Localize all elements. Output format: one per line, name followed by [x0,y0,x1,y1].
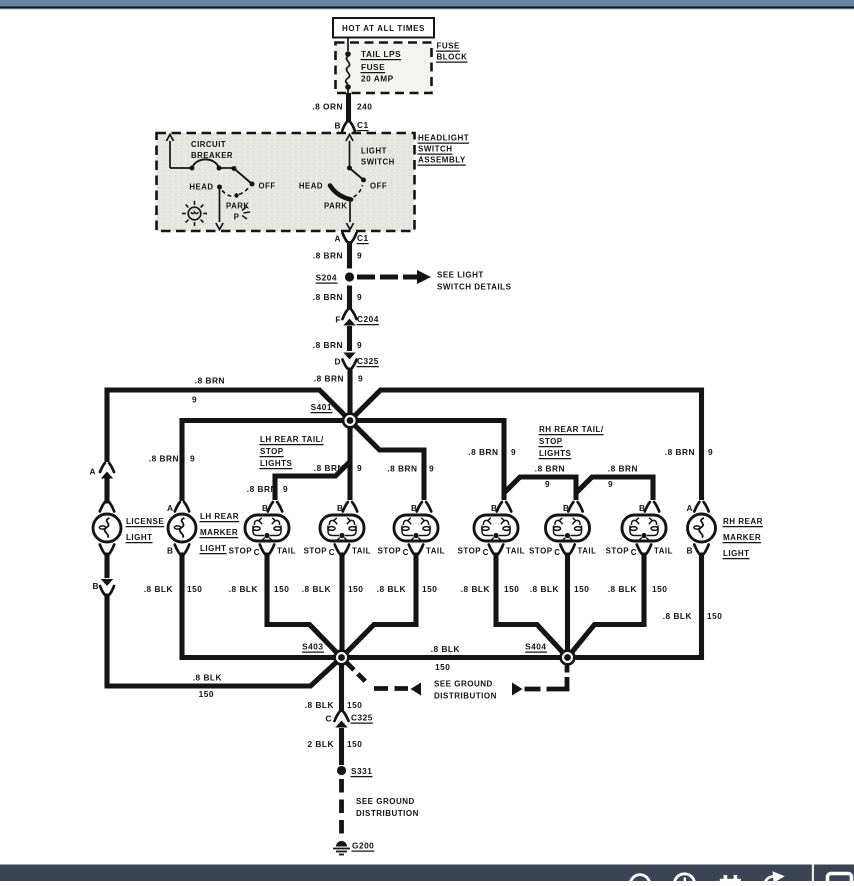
wire S401 to LH stop lights center [347,421,352,501]
svg-text:9: 9 [429,464,434,474]
svg-text:.8 BLK: .8 BLK [663,611,692,621]
svg-text:STOP: STOP [606,547,629,556]
svg-text:F: F [335,315,341,325]
lamp LH stop tail lamp inner [245,515,289,541]
lamp license light [93,514,121,542]
svg-text:B: B [411,503,418,513]
svg-text:.8 BRN: .8 BRN [149,454,179,464]
svg-text:STOP: STOP [458,547,481,556]
svg-text:.8 BLK: .8 BLK [608,584,637,594]
wire park output to connector A [349,199,351,222]
svg-text:A: A [687,503,694,513]
lamp RH rear marker light [688,514,716,542]
svg-text:150: 150 [347,739,362,749]
svg-text:S401: S401 [311,402,332,412]
svg-text:LIGHT: LIGHT [200,544,227,553]
splice S401 [343,414,357,428]
svg-text:A: A [167,503,174,513]
svg-text:B: B [491,503,498,513]
svg-text:9: 9 [357,463,362,473]
svg-text:2 BLK: 2 BLK [308,739,334,749]
headlight switch wafer 1 blade [232,166,237,171]
svg-text:BREAKER: BREAKER [191,151,233,160]
svg-text:.8 ORN: .8 ORN [312,102,343,112]
svg-text:.8 BLK: .8 BLK [229,584,258,594]
svg-text:B: B [563,503,570,513]
wire LH stop center to S403, .8 BLK 150 [339,553,344,658]
wire LH stop outer to S403, .8 BLK 150 [342,553,417,658]
wire S401 to license light, .8 BRN 9 [107,390,350,462]
svg-text:DISTRIBUTION: DISTRIBUTION [356,809,419,818]
svg-text:9: 9 [511,447,516,457]
svg-text:9: 9 [192,395,197,405]
svg-text:.8 BLK: .8 BLK [193,673,222,683]
svg-text:150: 150 [574,584,589,594]
svg-text:.8 BRN: .8 BRN [535,464,565,474]
svg-text:SWITCH: SWITCH [361,158,395,167]
wire branch S401 to LH stop light outer [350,421,424,501]
splice S331 [337,766,346,775]
svg-text:.8 BLK: .8 BLK [530,584,559,594]
svg-text:.8 BRN: .8 BRN [195,376,225,386]
fuse TAIL LPS FUSE 20 AMP [347,43,349,52]
svg-text:TAIL: TAIL [352,547,371,556]
svg-text:P: P [234,213,240,222]
svg-text:9: 9 [545,479,550,489]
svg-text:.8 BRN: .8 BRN [247,484,277,494]
svg-text:C: C [403,548,409,557]
svg-text:150: 150 [348,584,363,594]
connector C325 cavity C [335,712,349,721]
wire LH stop inner to S403, .8 BLK 150 [267,553,342,658]
svg-text:9: 9 [357,251,362,261]
svg-text:.8 BRN: .8 BRN [468,447,498,457]
connector C1 cavity A [343,233,357,242]
svg-text:.8 BLK: .8 BLK [377,584,406,594]
svg-text:150: 150 [347,700,362,710]
wire S403 to C325, .8 BLK 150 [339,665,344,713]
svg-text:LIGHT: LIGHT [361,147,387,156]
connector C1 cavity B [342,123,355,132]
lamp LH stop tail lamp center [320,515,364,541]
viewer bottom toolbar [0,865,854,882]
svg-text:.8 BRN: .8 BRN [314,374,344,384]
wire RH stop center to S404, .8 BLK 150 [565,553,570,658]
fuse block box [336,43,432,94]
svg-text:HEADLIGHT: HEADLIGHT [418,134,469,143]
svg-text:LIGHTS: LIGHTS [539,449,571,458]
wire S401 to RH marker light, .8 BRN 9 [350,390,702,500]
wire license light to B connector [104,553,109,579]
svg-text:B: B [335,121,342,131]
lamp RH stop tail lamp outer [622,515,666,541]
svg-text:HOT AT ALL TIMES: HOT AT ALL TIMES [342,24,425,33]
lamp LH stop tail lamp outer [394,515,438,541]
svg-text:LIGHTS: LIGHTS [260,459,292,468]
svg-text:TAIL: TAIL [426,547,445,556]
toolbar divider [812,865,814,882]
svg-text:C1: C1 [357,233,369,243]
svg-text:.8 BLK: .8 BLK [144,584,173,594]
svg-text:RH REAR TAIL/: RH REAR TAIL/ [539,425,604,434]
svg-text:A: A [90,467,97,477]
splice S404 [561,651,575,665]
svg-text:B: B [337,503,344,513]
wire HEAD contact to park lamps output [219,187,221,222]
light switch S1 [349,141,351,167]
svg-text:FUSE: FUSE [437,42,461,51]
svg-text:C325: C325 [351,713,373,723]
svg-text:ASSEMBLY: ASSEMBLY [418,156,466,165]
svg-text:TAIL LPS: TAIL LPS [361,49,401,59]
svg-text:150: 150 [199,689,214,699]
light switch blade park position [330,186,351,200]
svg-text:20 AMP: 20 AMP [361,74,394,84]
svg-text:TAIL: TAIL [578,547,597,556]
svg-text:150: 150 [274,584,289,594]
toolbar zoom icon [630,875,650,886]
toolbar history icon [674,874,694,886]
svg-text:OFF: OFF [259,182,276,191]
dashed arrow S403 see ground distribution [347,663,370,686]
wire C325 to S331, 2 BLK 150 [339,728,344,765]
svg-text:STOP: STOP [260,447,284,456]
svg-text:150: 150 [707,611,722,621]
wire branch to LH stop light inner [275,462,350,501]
svg-text:C: C [329,548,335,557]
connector C325 cavity D [343,353,355,360]
svg-text:B: B [687,546,694,556]
power feed box HOT AT ALL TIMES [333,18,434,38]
svg-text:SEE LIGHT: SEE LIGHT [437,271,484,280]
svg-text:.8 BRN: .8 BRN [313,251,343,261]
svg-text:D: D [335,357,342,367]
lamp RH stop tail lamp center [546,515,590,541]
svg-text:LH REAR TAIL/: LH REAR TAIL/ [260,435,324,444]
svg-text:9: 9 [357,340,362,350]
svg-text:STOP: STOP [539,437,563,446]
svg-text:.8 BRN: .8 BRN [608,464,638,474]
svg-text:.8 BLK: .8 BLK [431,644,460,654]
wire S401 to LH marker light, .8 BRN 9 [182,421,350,502]
svg-text:240: 240 [357,102,372,112]
headlight switch assembly box [157,133,415,231]
svg-text:TAIL: TAIL [654,547,673,556]
svg-text:LICENSE: LICENSE [126,517,164,526]
svg-text:B: B [639,503,646,513]
lamp RH stop tail lamp inner [474,515,518,541]
svg-text:HEAD: HEAD [299,182,323,191]
svg-text:PARK: PARK [324,202,348,211]
svg-text:PARK: PARK [226,202,250,211]
svg-text:C: C [326,714,333,724]
svg-text:RH REAR: RH REAR [723,517,763,526]
dashed arrow SEE LIGHT SWITCH DETAILS [357,275,417,280]
toolbar rotate icon [764,876,779,885]
lamp LH rear marker light [168,514,196,542]
toolbar fullscreen icon [828,874,852,886]
svg-text:G200: G200 [352,841,374,851]
ground G200 [336,841,347,847]
svg-text:SEE GROUND: SEE GROUND [434,680,493,689]
svg-text:BLOCK: BLOCK [437,53,468,62]
svg-text:SEE GROUND: SEE GROUND [356,797,415,806]
svg-text:.8 BRN: .8 BRN [665,447,695,457]
splice S403 [335,651,349,665]
svg-text:9: 9 [358,374,363,384]
svg-text:LIGHT: LIGHT [723,549,750,558]
svg-text:OFF: OFF [370,182,387,191]
svg-text:.8 BRN: .8 BRN [313,292,343,302]
svg-text:STOP: STOP [529,547,552,556]
wire LH marker to ground bus, .8 BLK 150 [182,553,342,658]
svg-text:S404: S404 [525,642,546,652]
svg-text:B: B [262,503,269,513]
svg-text:C: C [631,548,637,557]
svg-text:STOP: STOP [229,547,252,556]
wire fuse to connector C1, circuit 240 orange [346,93,351,123]
svg-text:C: C [483,548,489,557]
svg-text:S331: S331 [351,766,372,776]
wire C325 to S401, .8 BRN 9 [347,368,352,419]
svg-text:LIGHT: LIGHT [126,533,153,542]
svg-text:SWITCH DETAILS: SWITCH DETAILS [437,283,512,292]
ground bus S403 to S404, .8 BLK 150 [342,655,568,660]
svg-text:.8 BRN: .8 BRN [313,340,343,350]
svg-text:9: 9 [283,484,288,494]
svg-text:HEAD: HEAD [189,183,213,192]
wire license light to S403, .8 BLK 150 [107,594,342,687]
wire HOT box to fuse block [347,38,349,43]
dashed arrow S404 see ground distribution [512,683,523,696]
license light connector cavity B [101,579,113,586]
svg-text:B: B [167,546,174,556]
wire RH stop inner to S404, .8 BLK 150 [496,553,568,658]
svg-text:SWITCH: SWITCH [418,145,453,154]
circuit breaker CB [169,141,171,168]
svg-text:.8 BLK: .8 BLK [461,584,490,594]
svg-text:C: C [554,548,560,557]
browser top bar [0,0,854,6]
wire RH stop outer to S404, .8 BLK 150 [568,553,645,658]
svg-text:C1: C1 [357,120,369,130]
svg-text:S204: S204 [316,273,337,283]
svg-text:S403: S403 [302,642,323,652]
park dashed travel arc left [222,191,234,197]
wire branch to RH stop light outer [576,477,653,500]
svg-text:MARKER: MARKER [723,533,761,542]
svg-text:B: B [93,581,100,591]
headlamp indicator symbol [188,207,201,220]
toolbar keyboard icon [724,875,728,881]
license light connector cavity A [100,463,114,472]
svg-text:9: 9 [357,292,362,302]
svg-text:C: C [254,548,260,557]
svg-text:9: 9 [708,447,713,457]
wire S401 to RH stop light inner [350,421,504,501]
svg-text:STOP: STOP [378,547,401,556]
wire branch to RH stop light center [504,477,576,500]
wire RH marker to ground bus, .8 BLK 150 [574,553,702,658]
svg-text:TAIL: TAIL [277,547,296,556]
svg-text:9: 9 [190,454,195,464]
svg-text:STOP: STOP [304,547,327,556]
wire S204 to C204, .8 BRN 9 [347,286,352,311]
svg-text:C325: C325 [357,356,379,366]
svg-text:A: A [335,234,342,244]
splice S204 [345,272,354,281]
svg-text:FUSE: FUSE [361,62,385,72]
svg-text:9: 9 [608,479,613,489]
svg-text:LH REAR: LH REAR [200,512,239,521]
connector C204 cavity F [343,310,357,319]
dashed wire S331 to G200 [339,779,344,840]
svg-text:MARKER: MARKER [200,528,238,537]
svg-text:150: 150 [504,584,519,594]
svg-text:C204: C204 [357,314,379,324]
svg-text:TAIL: TAIL [506,547,525,556]
svg-text:.8 BLK: .8 BLK [305,700,334,710]
svg-text:150: 150 [435,662,450,672]
wire A C1 to S204, .8 BRN 9 [347,241,352,269]
svg-text:DISTRIBUTION: DISTRIBUTION [434,692,497,701]
svg-text:.8 BRN: .8 BRN [387,464,417,474]
svg-text:150: 150 [652,584,667,594]
svg-text:CIRCUIT: CIRCUIT [191,140,226,149]
svg-text:150: 150 [187,584,202,594]
svg-text:150: 150 [422,584,437,594]
svg-text:.8 BLK: .8 BLK [302,584,331,594]
wire C204 to C325, .8 BRN 9 [347,326,352,351]
